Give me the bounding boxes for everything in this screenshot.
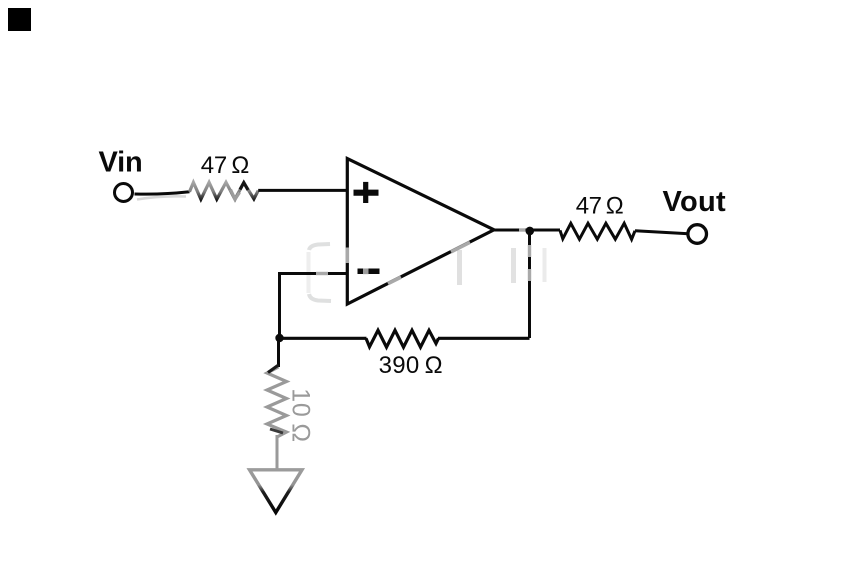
svg-text:Vin: Vin [99, 146, 143, 178]
svg-text:390 Ω: 390 Ω [379, 352, 443, 379]
svg-text:Vout: Vout [663, 186, 727, 218]
svg-text:10 Ω: 10 Ω [287, 388, 315, 443]
svg-text:47 Ω: 47 Ω [576, 193, 623, 220]
svg-text:47 Ω: 47 Ω [201, 152, 249, 179]
